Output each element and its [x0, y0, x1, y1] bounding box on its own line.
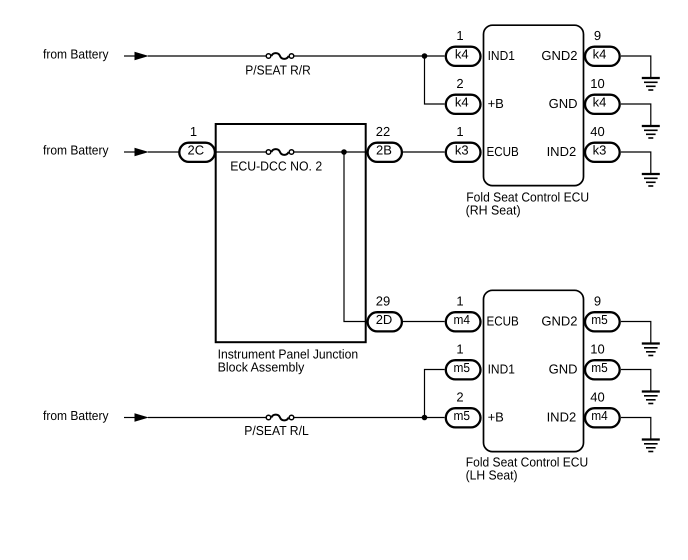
- connector k4 pin 2 (+B, RH): [446, 76, 481, 114]
- svg-text:GND: GND: [549, 361, 578, 376]
- svg-text:9: 9: [594, 28, 601, 43]
- node junction inside junction block: [341, 149, 347, 155]
- svg-text:IND1: IND1: [488, 361, 515, 376]
- svg-text:m4: m4: [591, 408, 608, 423]
- ground (LH GND2): [642, 344, 660, 356]
- svg-text:from Battery: from Battery: [43, 408, 109, 423]
- wire fuse to connector 2B: [294, 151, 366, 153]
- wire branch down to connector 2D: [344, 152, 367, 322]
- arrow (junction block feed): [124, 148, 149, 156]
- connector m4 pin 40 (IND2, LH): [585, 390, 620, 428]
- svg-text:k4: k4: [593, 94, 607, 109]
- wire from arrow to connector 2C: [148, 151, 179, 153]
- wire k4 pin 10 to ground: [621, 104, 651, 126]
- wire 2C to fuse ECU-DCC NO. 2: [217, 151, 266, 153]
- svg-text:9: 9: [594, 294, 601, 309]
- connector 2B pin 22: [368, 124, 402, 162]
- svg-text:from Battery: from Battery: [43, 46, 109, 61]
- wire m4 pin 40 to ground: [621, 418, 651, 440]
- connector m5 pin 2 (+B, LH): [446, 390, 481, 428]
- wire 2D to connector m4: [403, 321, 445, 323]
- svg-text:29: 29: [376, 294, 390, 309]
- svg-text:m5: m5: [591, 312, 608, 327]
- svg-text:2B: 2B: [376, 142, 392, 157]
- Fold Seat Control ECU (RH Seat) box: [466, 25, 589, 217]
- svg-text:10: 10: [590, 342, 604, 357]
- svg-text:IND2: IND2: [547, 409, 577, 424]
- wire m5 pin 10 to ground: [621, 370, 651, 392]
- svg-text:GND2: GND2: [541, 48, 577, 63]
- connector k3 pin 1 (ECUB, RH): [446, 124, 481, 162]
- svg-text:10: 10: [590, 76, 604, 91]
- svg-text:ECU-DCC NO. 2: ECU-DCC NO. 2: [230, 158, 322, 173]
- ground (LH IND2): [642, 440, 660, 452]
- connector k3 pin 40 (IND2, RH): [585, 124, 620, 162]
- ground (RH GND2): [642, 78, 660, 90]
- wire m5 pin 9 to ground: [621, 322, 651, 344]
- svg-text:GND2: GND2: [541, 313, 577, 328]
- wire from fuse to connector m5 pin 2: [294, 417, 444, 419]
- svg-text:(RH Seat): (RH Seat): [466, 203, 521, 218]
- svg-text:40: 40: [590, 390, 604, 405]
- svg-text:k4: k4: [593, 46, 607, 61]
- node junction on RH +B branch: [422, 53, 428, 59]
- ground (LH GND): [642, 392, 660, 404]
- fuse ECU-DCC NO. 2: [230, 149, 322, 173]
- Fold Seat Control ECU (LH Seat) box: [466, 290, 589, 482]
- svg-text:P/SEAT R/L: P/SEAT R/L: [244, 423, 309, 438]
- svg-text:2D: 2D: [376, 312, 393, 327]
- svg-text:1: 1: [456, 28, 463, 43]
- arrow (RH feed): [124, 52, 149, 60]
- node junction on LH IND1 branch: [422, 415, 428, 421]
- ground (RH GND): [642, 126, 660, 138]
- svg-text:22: 22: [376, 124, 390, 139]
- svg-text:k4: k4: [455, 46, 469, 61]
- svg-text:40: 40: [590, 124, 604, 139]
- svg-text:m4: m4: [453, 312, 470, 327]
- svg-text:2: 2: [456, 390, 463, 405]
- svg-text:ECUB: ECUB: [487, 313, 519, 328]
- connector k4 pin 10 (GND, RH): [585, 76, 620, 114]
- svg-text:1: 1: [456, 124, 463, 139]
- svg-text:IND1: IND1: [488, 48, 515, 63]
- wire k4 pin 9 to ground: [621, 56, 651, 78]
- wire branch up to IND1 (LH): [425, 370, 445, 418]
- svg-text:from Battery: from Battery: [43, 142, 109, 157]
- svg-text:m5: m5: [591, 360, 608, 375]
- connector k4 pin 9 (GND2, RH): [585, 28, 620, 66]
- svg-text:m5: m5: [453, 360, 470, 375]
- connector 2C pin 1: [179, 124, 215, 162]
- wire k3 pin 40 to ground: [621, 152, 651, 174]
- svg-text:IND2: IND2: [547, 144, 577, 159]
- fuse P/SEAT R/R: [245, 53, 311, 77]
- svg-text:1: 1: [190, 124, 197, 139]
- svg-text:m5: m5: [453, 408, 470, 423]
- svg-text:k3: k3: [455, 142, 469, 157]
- Instrument Panel Junction Block Assembly box: [216, 124, 366, 374]
- arrow (LH feed): [124, 413, 149, 421]
- connector m5 pin 10 (GND, LH): [585, 342, 620, 380]
- wire from fuse to connector k4 pin 1: [294, 55, 444, 57]
- svg-text:k3: k3: [593, 142, 607, 157]
- svg-text:Block Assembly: Block Assembly: [218, 359, 305, 374]
- svg-text:+B: +B: [488, 96, 504, 111]
- connector m5 pin 1 (IND1, LH): [446, 342, 481, 380]
- svg-text:GND: GND: [549, 96, 578, 111]
- fuse P/SEAT R/L: [244, 415, 309, 438]
- connector k4 pin 1 (IND1, RH): [446, 28, 481, 66]
- wire from arrow to fuse P/SEAT R/R: [148, 55, 266, 57]
- connector m4 pin 1 (ECUB, LH): [446, 294, 481, 332]
- svg-text:k4: k4: [455, 94, 469, 109]
- ground (RH IND2): [642, 174, 660, 186]
- svg-text:P/SEAT R/R: P/SEAT R/R: [245, 62, 311, 77]
- wire 2B to connector k3: [403, 151, 445, 153]
- connector m5 pin 9 (GND2, LH): [585, 294, 620, 332]
- connector 2D pin 29: [368, 294, 402, 332]
- wire branch down to +B (RH): [425, 56, 445, 104]
- svg-text:1: 1: [456, 342, 463, 357]
- svg-text:2C: 2C: [187, 142, 204, 157]
- svg-text:ECUB: ECUB: [487, 144, 519, 159]
- svg-text:+B: +B: [488, 409, 504, 424]
- svg-text:(LH Seat): (LH Seat): [466, 468, 518, 483]
- wire from arrow to fuse P/SEAT R/L: [148, 417, 266, 419]
- svg-text:2: 2: [456, 76, 463, 91]
- svg-text:1: 1: [456, 294, 463, 309]
